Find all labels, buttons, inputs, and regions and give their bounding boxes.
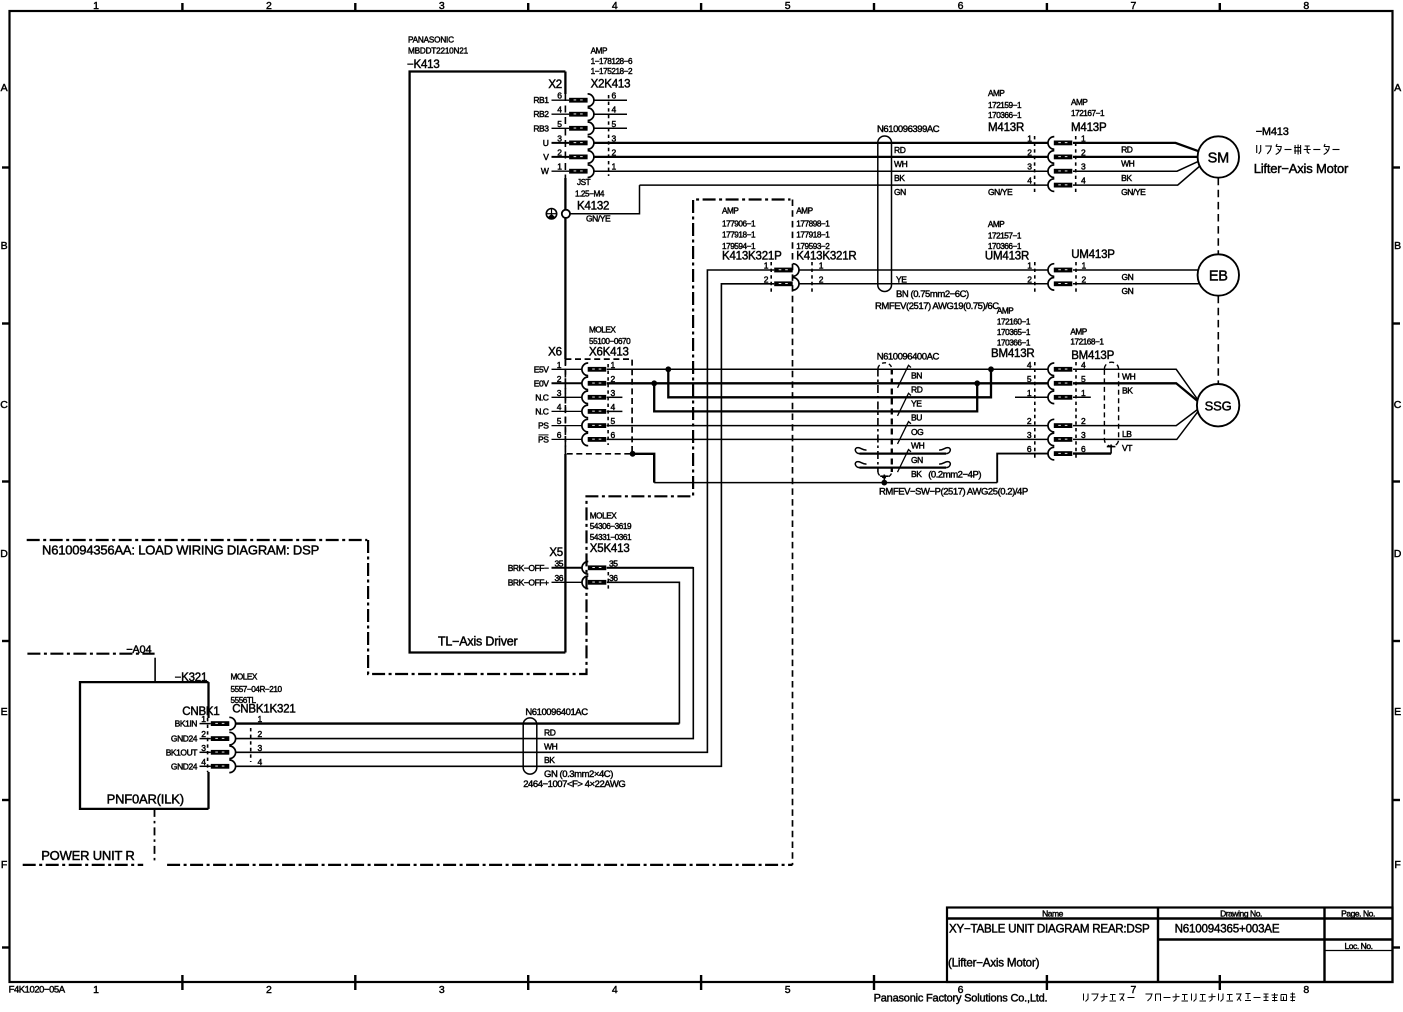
svg-text:BK: BK (911, 469, 922, 479)
svg-text:2: 2 (1082, 274, 1087, 284)
svg-text:1: 1 (557, 162, 562, 172)
svg-text:2: 2 (201, 729, 206, 739)
svg-text:A: A (1394, 82, 1401, 94)
junction dot at BM pin5 row (974, 380, 980, 386)
wire GN/YE from K4132 (570, 185, 640, 214)
svg-text:177898−1: 177898−1 (796, 219, 830, 228)
terminal K4132 open circle (562, 210, 570, 218)
wire BU branch (E0V to BM413R pin5) (654, 383, 977, 411)
svg-text:U: U (543, 138, 549, 148)
svg-text:N610094365+003AE: N610094365+003AE (1175, 923, 1280, 936)
svg-text:6: 6 (958, 0, 964, 12)
svg-text:36: 36 (609, 573, 618, 583)
svg-text:4: 4 (1081, 176, 1086, 186)
CNBK1 dashed pin line (207, 718, 209, 772)
svg-text:177906−1: 177906−1 (722, 219, 756, 228)
svg-text:F: F (1, 859, 7, 871)
wires UM413P to EB, GN labels (1073, 269, 1198, 271)
svg-text:2: 2 (1027, 416, 1032, 426)
svg-text:X5: X5 (549, 547, 563, 559)
BM413P pin1 stub (1073, 396, 1091, 398)
svg-text:W: W (541, 166, 549, 176)
svg-text:172167−1: 172167−1 (1071, 109, 1105, 118)
svg-text:4: 4 (612, 0, 618, 12)
svg-text:1: 1 (819, 261, 824, 271)
svg-text:−M413: −M413 (1256, 126, 1289, 138)
svg-text:D: D (1394, 548, 1402, 560)
svg-text:1: 1 (1027, 388, 1032, 398)
svg-text:A: A (1, 82, 8, 94)
svg-text:K413K321R: K413K321R (796, 250, 856, 262)
svg-text:1: 1 (1027, 133, 1032, 143)
svg-text:RD: RD (1121, 145, 1133, 155)
svg-text:55100−0670: 55100−0670 (589, 337, 631, 346)
svg-text:PNF0AR(ILK): PNF0AR(ILK) (107, 791, 184, 806)
svg-text:CNBK1K321: CNBK1K321 (232, 703, 295, 715)
svg-text:RMFEV−SW−P(2517) AWG25(0.2)/4P: RMFEV−SW−P(2517) AWG25(0.2)/4P (879, 487, 1028, 498)
svg-text:1: 1 (557, 360, 562, 370)
svg-text:POWER UNIT R: POWER UNIT R (41, 848, 134, 863)
svg-text:5557−04R−210: 5557−04R−210 (231, 685, 283, 694)
japanese label lifter axis motor (1257, 144, 1340, 155)
svg-text:6: 6 (612, 91, 617, 101)
svg-text:Panasonic Factory Solutions: Panasonic Factory Solutions Co.,Ltd. (874, 993, 1048, 1005)
svg-text:WH: WH (1121, 159, 1135, 169)
svg-text:C: C (1394, 399, 1402, 411)
wire YE K413K321R pin1 to UM413R pin1 (798, 269, 1048, 271)
wire V / WH row (594, 156, 1049, 158)
svg-text:RB3: RB3 (533, 123, 549, 133)
shield wire X6 shell to BM413R pin6 (633, 454, 655, 483)
svg-text:E5V: E5V (534, 364, 549, 374)
svg-text:36: 36 (554, 573, 563, 583)
svg-text:MOLEX: MOLEX (590, 511, 617, 520)
svg-text:GN/YE: GN/YE (586, 214, 611, 224)
svg-text:K4132: K4132 (577, 201, 609, 213)
X6 N.C stubs (607, 396, 623, 398)
svg-text:AMP: AMP (796, 207, 813, 216)
svg-text:B: B (1394, 240, 1401, 252)
svg-text:177918−1: 177918−1 (722, 231, 756, 240)
svg-text:2: 2 (764, 274, 769, 284)
svg-text:MOLEX: MOLEX (231, 673, 258, 682)
svg-text:2: 2 (266, 984, 272, 996)
svg-text:MBDDT2210N21: MBDDT2210N21 (408, 47, 469, 56)
TL-Axis driver box -K413 (410, 72, 566, 653)
svg-text:UM413R: UM413R (985, 250, 1029, 262)
svg-text:Name: Name (1042, 909, 1064, 919)
svg-text:GND24: GND24 (171, 761, 198, 771)
svg-text:F4K1020−05A: F4K1020−05A (9, 985, 66, 996)
svg-text:1: 1 (93, 0, 99, 12)
X6K413 dashed box (565, 359, 632, 454)
svg-text:YE: YE (896, 274, 907, 284)
boundary dash-dot LOAD WIRING DIAGRAM (27, 539, 368, 541)
svg-text:5: 5 (785, 0, 791, 12)
svg-text:GND24: GND24 (171, 734, 198, 744)
svg-text:N.C: N.C (535, 406, 549, 416)
svg-text:7: 7 (1131, 984, 1137, 996)
svg-text:RB1: RB1 (533, 95, 549, 105)
wire BRK-OFF+ to CNBK1 pin1 (607, 582, 680, 723)
svg-text:GN: GN (1122, 286, 1134, 296)
svg-text:WH: WH (911, 441, 925, 451)
svg-text:VT: VT (1122, 443, 1132, 453)
twisted pair GN BK pigtail (860, 452, 947, 454)
svg-text:5: 5 (1027, 374, 1032, 384)
svg-text:RD: RD (911, 385, 923, 395)
svg-text:AMP: AMP (591, 47, 608, 56)
svg-text:JST: JST (577, 178, 591, 187)
svg-text:5: 5 (612, 119, 617, 129)
svg-text:4: 4 (612, 105, 617, 115)
svg-text:(Lifter−Axis Motor): (Lifter−Axis Motor) (948, 957, 1040, 970)
svg-text:5: 5 (557, 119, 562, 129)
svg-text:170366−1: 170366−1 (997, 338, 1031, 347)
svg-text:7: 7 (1131, 0, 1137, 12)
svg-text:RB2: RB2 (533, 109, 549, 119)
power unit box PNF0AR -K321 (80, 682, 209, 809)
title block (947, 908, 1393, 983)
BM413R pin1 N.C stub (1015, 396, 1048, 398)
svg-text:4: 4 (258, 757, 263, 767)
svg-text:2: 2 (1027, 274, 1032, 284)
svg-text:PANASONIC: PANASONIC (408, 36, 454, 45)
svg-text:LB: LB (1122, 429, 1132, 439)
wires M413P to SM motor (1073, 143, 1198, 151)
chassis ground symbol (546, 209, 556, 219)
svg-text:K413K321P: K413K321P (722, 250, 782, 262)
svg-text:8: 8 (1303, 0, 1309, 12)
svg-text:N610096399AC: N610096399AC (877, 124, 940, 135)
svg-text:BN: BN (911, 371, 922, 381)
svg-text:RMFEV(2517) AWG19(0.75)/6C: RMFEV(2517) AWG19(0.75)/6C (875, 301, 999, 312)
svg-text:1−178128−6: 1−178128−6 (591, 57, 633, 66)
svg-text:1: 1 (258, 714, 263, 724)
svg-text:M413P: M413P (1071, 122, 1107, 134)
svg-text:GN: GN (1122, 272, 1134, 282)
wire BN K413K321R pin2 to UM413R pin2 (798, 283, 1048, 285)
svg-text:4: 4 (611, 402, 616, 412)
svg-text:B: B (1, 240, 8, 252)
svg-text:OG: OG (911, 427, 923, 437)
svg-text:GN: GN (894, 187, 906, 197)
svg-text:3: 3 (201, 743, 206, 753)
svg-text:1: 1 (1027, 261, 1032, 271)
svg-text:3: 3 (557, 388, 562, 398)
svg-text:4: 4 (1027, 176, 1032, 186)
svg-text:4: 4 (557, 402, 562, 412)
svg-text:177918−1: 177918−1 (796, 231, 830, 240)
svg-text:F: F (1394, 859, 1400, 871)
svg-text:D: D (0, 548, 8, 560)
svg-text:GN/YE: GN/YE (1121, 187, 1146, 197)
wire K413K321P pin2 to CNBK1 pin4 (236, 284, 774, 767)
svg-text:WH: WH (1122, 372, 1136, 382)
svg-text:5: 5 (785, 984, 791, 996)
twist marks (898, 365, 912, 388)
svg-text:170365−1: 170365−1 (997, 328, 1031, 337)
svg-text:1−175218−2: 1−175218−2 (591, 67, 633, 76)
svg-text:BM413R: BM413R (991, 348, 1035, 360)
svg-text:54331−0361: 54331−0361 (590, 533, 632, 542)
svg-text:N610094356AA: LOAD WIRING DI: N610094356AA: LOAD WIRING DIAGRAM: DSP (42, 543, 319, 558)
svg-text:1: 1 (201, 714, 206, 724)
svg-text:Page. No.: Page. No. (1341, 909, 1375, 919)
svg-text:BK: BK (1121, 173, 1132, 183)
X2 stub wires RB1-RB3 (594, 99, 628, 101)
svg-text:BK: BK (544, 755, 555, 765)
svg-text:BRK−OFF+: BRK−OFF+ (508, 577, 549, 587)
svg-text:2: 2 (819, 274, 824, 284)
svg-text:1: 1 (611, 360, 616, 370)
svg-text:UM413P: UM413P (1071, 249, 1115, 261)
svg-text:X6K413: X6K413 (589, 346, 629, 358)
svg-text:WH: WH (544, 742, 558, 752)
boundary dash-dot POWER UNIT R (23, 864, 144, 866)
wire U / RD row (594, 142, 1049, 144)
svg-text:4: 4 (201, 757, 206, 767)
svg-text:GN/YE: GN/YE (988, 187, 1013, 197)
svg-text:6: 6 (557, 430, 562, 440)
japanese company name (1084, 993, 1296, 1002)
svg-text:5: 5 (557, 416, 562, 426)
encoder SSG circle (1197, 384, 1239, 426)
cable N610096401AC sheath (523, 718, 537, 774)
svg-text:3: 3 (439, 984, 445, 996)
svg-text:GN: GN (911, 455, 923, 465)
junction dot at BM pin4 row (988, 366, 994, 372)
svg-text:54306−3619: 54306−3619 (590, 522, 632, 531)
BM413P shield oval dashed (1104, 362, 1118, 446)
svg-text:(0.2mm2−4P): (0.2mm2−4P) (928, 470, 981, 481)
svg-text:172168−1: 172168−1 (1070, 338, 1104, 347)
svg-text:Lifter−Axis Motor: Lifter−Axis Motor (1254, 161, 1349, 176)
svg-text:BM413P: BM413P (1071, 350, 1114, 362)
svg-text:2: 2 (258, 729, 263, 739)
svg-text:XY−TABLE UNIT DIAGRAM REAR:DSP: XY−TABLE UNIT DIAGRAM REAR:DSP (949, 923, 1150, 936)
svg-text:5: 5 (611, 416, 616, 426)
svg-text:4: 4 (557, 105, 562, 115)
svg-text:172160−1: 172160−1 (997, 317, 1031, 326)
svg-text:RD: RD (894, 145, 906, 155)
wire WH / PS- row to BM413R pin3 (607, 438, 1049, 440)
svg-text:BN (0.75mm2−6C): BN (0.75mm2−6C) (896, 289, 969, 300)
boundary long dashed vertical (792, 200, 794, 865)
svg-text:AMP: AMP (1070, 328, 1087, 337)
svg-text:6: 6 (557, 91, 562, 101)
svg-text:AMP: AMP (997, 307, 1014, 316)
CNBK1K321 dashed line (250, 728, 252, 762)
svg-text:3: 3 (439, 0, 445, 12)
svg-text:E: E (1, 706, 8, 718)
svg-text:2: 2 (1081, 416, 1086, 426)
wire W / BK row (594, 170, 1049, 172)
svg-text:BU: BU (911, 413, 922, 423)
svg-text:E: E (1394, 706, 1401, 718)
svg-text:2: 2 (266, 0, 272, 12)
svg-text:2: 2 (1027, 147, 1032, 157)
svg-text:1: 1 (1081, 388, 1086, 398)
svg-text:2464−1007<F> 4×22AWG: 2464−1007<F> 4×22AWG (523, 779, 625, 790)
wire GN row (640, 184, 1049, 186)
svg-text:PS: PS (538, 434, 549, 444)
svg-text:BK: BK (1122, 386, 1133, 396)
svg-text:EB: EB (1209, 268, 1228, 284)
junction dot E5V (665, 366, 671, 372)
svg-text:1.25−M4: 1.25−M4 (575, 190, 605, 199)
svg-text:AMP: AMP (988, 89, 1005, 98)
svg-text:1: 1 (764, 261, 769, 271)
svg-text:WH: WH (894, 159, 908, 169)
svg-text:3: 3 (1027, 430, 1032, 440)
svg-text:170366−1: 170366−1 (988, 111, 1022, 120)
svg-text:SSG: SSG (1205, 399, 1232, 414)
svg-text:Drawing No.: Drawing No. (1220, 909, 1262, 919)
svg-text:BRK−OFF−: BRK−OFF− (508, 563, 549, 573)
link EB to SSG dashed (1217, 296, 1219, 384)
svg-text:BK1IN: BK1IN (175, 719, 198, 729)
svg-text:X2: X2 (548, 79, 562, 91)
wire E0V / RD row to BM413R pin5 (607, 382, 1049, 384)
svg-text:Loc. No.: Loc. No. (1344, 941, 1372, 951)
wire BRK-OFF- to CNBK1 pin2 (236, 568, 693, 739)
svg-text:1: 1 (93, 984, 99, 996)
svg-text:3: 3 (1081, 430, 1086, 440)
svg-text:N.C: N.C (535, 392, 549, 402)
svg-text:8: 8 (1303, 984, 1309, 996)
svg-text:4: 4 (612, 984, 618, 996)
svg-text:6: 6 (1027, 444, 1032, 454)
svg-text:4: 4 (1027, 360, 1032, 370)
svg-text:BK: BK (894, 173, 905, 183)
svg-text:M413R: M413R (988, 122, 1024, 134)
svg-text:C: C (0, 399, 8, 411)
svg-text:YE: YE (911, 399, 922, 409)
wire YE branch (E5V to BM413R pin1) (668, 369, 991, 397)
svg-text:E0V: E0V (534, 378, 549, 388)
svg-text:3: 3 (258, 743, 263, 753)
svg-text:3: 3 (611, 388, 616, 398)
link SM to EB dashed (1217, 178, 1219, 255)
cable 400 shield stub and dot (883, 475, 885, 483)
svg-text:MOLEX: MOLEX (589, 326, 616, 335)
wire E5V / BN row to BM413R pin4 (607, 368, 1049, 370)
motor SM (M413) (1198, 136, 1239, 177)
svg-text:3: 3 (1081, 162, 1086, 172)
svg-text:−K321: −K321 (175, 672, 208, 684)
svg-text:V: V (543, 152, 549, 162)
svg-text:−K413: −K413 (407, 59, 440, 71)
svg-text:AMP: AMP (722, 207, 739, 216)
svg-text:N610096400AC: N610096400AC (877, 351, 940, 362)
svg-text:AMP: AMP (988, 220, 1005, 229)
BM413P shield stub T (1110, 445, 1112, 454)
svg-text:BK1OUT: BK1OUT (166, 747, 198, 757)
svg-text:SM: SM (1208, 150, 1229, 166)
junction dot E0V (651, 380, 657, 386)
svg-text:1: 1 (612, 162, 617, 172)
svg-text:N610096401AC: N610096401AC (525, 707, 588, 718)
svg-text:4: 4 (1081, 360, 1086, 370)
brake EB circle (1198, 254, 1239, 295)
X2K413 dashed line (608, 95, 610, 176)
svg-text:1: 1 (1082, 261, 1087, 271)
X6 shell dot (630, 451, 636, 457)
svg-text:X6: X6 (548, 346, 562, 358)
wire K413K321P pin1 to CNBK1 pin3 (236, 270, 774, 752)
wire OG / PS row to BM413R pin2 (607, 425, 1049, 427)
svg-text:RD: RD (544, 728, 556, 738)
wire to shield stub pin6 (1073, 452, 1111, 454)
svg-text:172159−1: 172159−1 (988, 101, 1022, 110)
wires BM413P to SSG (1073, 369, 1197, 399)
svg-text:X2K413: X2K413 (591, 79, 631, 91)
svg-text:X5K413: X5K413 (590, 543, 630, 555)
svg-text:PS: PS (538, 421, 549, 431)
svg-text:3: 3 (1027, 162, 1032, 172)
svg-text:6: 6 (611, 430, 616, 440)
svg-text:172157−1: 172157−1 (988, 231, 1022, 240)
X6K413 dashed pin line (607, 364, 609, 445)
svg-text:AMP: AMP (1071, 98, 1088, 107)
cable N610096399AC sheath (878, 136, 892, 292)
svg-text:TL−Axis Driver: TL−Axis Driver (438, 635, 518, 649)
